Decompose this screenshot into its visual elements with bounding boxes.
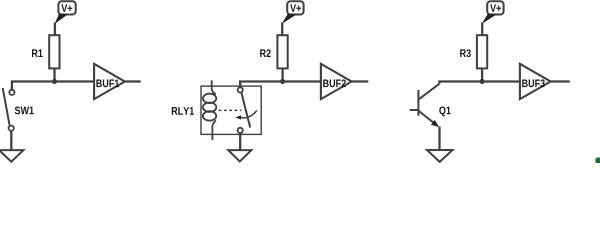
ground circuit 2: [228, 150, 251, 161]
power flag V+ (net 1): [55, 1, 76, 24]
op-amp buffer BUF3: [520, 64, 551, 99]
wire BUF3 output: [551, 80, 570, 82]
relay contact blade: [241, 92, 250, 127]
resistor R3: [460, 35, 487, 68]
relay coil L1 loops: [203, 94, 216, 121]
power flag V+ (net 2): [282, 1, 304, 24]
power flag V+ (net 3): [482, 1, 504, 24]
wire V+ to R2: [281, 23, 283, 36]
transistor Q1: [410, 84, 451, 128]
wire switch to BUF1 input: [12, 82, 94, 90]
relay contact pin bottom: [238, 128, 243, 133]
wire R1 to node: [53, 68, 55, 81]
switch SW1: [3, 88, 34, 131]
wire R2 to node: [281, 68, 283, 81]
watermark green mark bottom-right: [595, 157, 600, 164]
relay actuation dashed link: [219, 109, 242, 111]
wire V+ to R1: [54, 23, 56, 36]
relay coil top stub: [212, 80, 216, 94]
wire relay contact to BUF2 input: [240, 82, 321, 88]
wire BUF2 output: [352, 80, 369, 82]
op-amp buffer BUF1: [94, 64, 125, 99]
node junction circuit 2: [280, 79, 285, 84]
node junction circuit 1: [52, 79, 57, 84]
wire R3 to node: [481, 68, 483, 81]
op-amp buffer BUF2: [321, 64, 352, 99]
resistor R2: [260, 35, 287, 68]
wire emitter to ground: [438, 127, 440, 151]
relay contact pin top: [238, 87, 243, 92]
wire V+ to R3: [481, 23, 483, 36]
wire collector to BUF3 input: [439, 82, 520, 84]
relay coil bottom stub: [212, 120, 216, 139]
relay RLY1: [172, 86, 261, 134]
wire SW1 to ground: [10, 131, 12, 150]
wire BUF1 output: [125, 80, 141, 82]
resistor R1: [32, 35, 59, 68]
ground circuit 1: [0, 150, 23, 162]
relay actuation arrow: [235, 111, 256, 120]
wire relay to ground: [239, 133, 241, 150]
ground circuit 3: [427, 150, 453, 162]
node junction circuit 3: [480, 79, 485, 84]
